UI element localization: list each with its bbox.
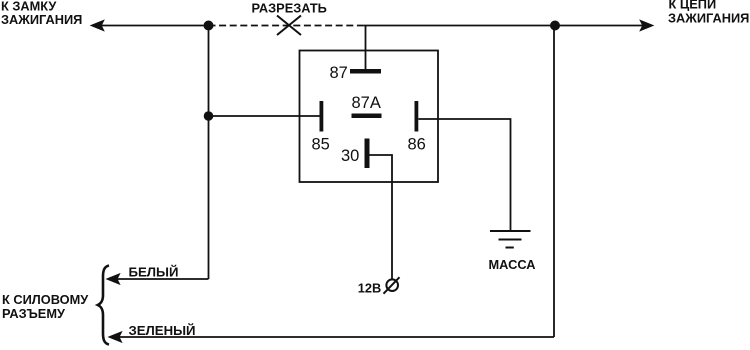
arrowhead left (to ignition lock) xyxy=(91,20,104,30)
svg-text:РАЗРЕЗАТЬ: РАЗРЕЗАТЬ xyxy=(252,1,327,16)
wire: vertical from right junction down to green wire xyxy=(553,26,555,338)
arrowhead green wire xyxy=(109,332,122,342)
svg-text:ЗЕЛЕНЫЙ: ЗЕЛЕНЫЙ xyxy=(129,323,196,338)
svg-text:МАССА: МАССА xyxy=(489,257,536,272)
relay contact pin 87A (bar) xyxy=(352,114,382,119)
node: junction dot on top wire (left) xyxy=(204,21,214,31)
wire: dashed section to be cut xyxy=(209,25,365,27)
svg-text:БЕЛЫЙ: БЕЛЫЙ xyxy=(129,265,179,280)
svg-text:30: 30 xyxy=(341,147,359,165)
curly brace for power connector xyxy=(98,266,109,345)
svg-text:ЗАЖИГАНИЯ: ЗАЖИГАНИЯ xyxy=(668,11,749,26)
svg-text:ЗАЖИГАНИЯ: ЗАЖИГАНИЯ xyxy=(1,12,82,27)
wire: green wire to power connector xyxy=(119,336,554,338)
wire: from junction to relay pin 85 xyxy=(209,115,320,117)
relay contact pin 87 (bar) xyxy=(350,69,381,74)
relay coil pin 86 (bar) xyxy=(415,101,419,132)
ground symbol (МАССА) xyxy=(490,231,531,248)
node: junction dot on top wire (right) xyxy=(550,21,560,31)
svg-text:РАЗЪЕМУ: РАЗЪЕМУ xyxy=(2,306,66,321)
arrowhead right (to ignition circuit) xyxy=(640,20,653,30)
svg-text:К СИЛОВОМУ: К СИЛОВОМУ xyxy=(2,292,89,307)
cut mark X xyxy=(277,16,301,36)
relay coil pin 85 (bar) xyxy=(320,101,324,132)
svg-text:87: 87 xyxy=(330,64,348,82)
label "К ЦЕПИ ЗАЖИГАНИЯ" (to ignition circuit) xyxy=(668,0,749,26)
relay common pin 30 (bar) xyxy=(365,139,370,169)
wire: top solid section to ignition circuit xyxy=(364,25,644,27)
wire: from top wire down to relay pin 87 xyxy=(365,26,367,70)
svg-text:12В: 12В xyxy=(358,280,381,295)
wire: white wire to power connector xyxy=(117,278,209,280)
label "К ЗАМКУ ЗАЖИГАНИЯ" (to ignition lock) xyxy=(1,0,82,27)
wire: pin 86 to ground xyxy=(418,119,510,231)
svg-text:86: 86 xyxy=(408,136,426,154)
12V supply terminal (open circle with slash) xyxy=(384,277,400,294)
node: junction dot at coil tap xyxy=(204,111,214,121)
svg-text:85: 85 xyxy=(312,136,330,154)
wire: pin 30 to +12V terminal xyxy=(370,155,393,279)
arrowhead white wire xyxy=(107,274,120,284)
relay box (outline) xyxy=(300,51,439,183)
svg-text:87A: 87A xyxy=(352,94,381,112)
wire: left arrow to ignition lock xyxy=(101,25,209,27)
wire: vertical from left junction down to white-wire corner xyxy=(208,26,210,280)
label "К СИЛОВОМУ РАЗЪЕМУ" (to power connector) xyxy=(2,292,89,321)
